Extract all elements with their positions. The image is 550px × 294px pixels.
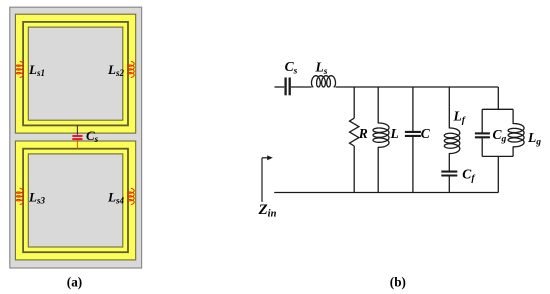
tank loop bottom side <box>482 155 513 157</box>
wire: R branch upper <box>353 87 355 118</box>
capacitor Cf <box>441 172 457 176</box>
svg-text:R: R <box>358 126 368 141</box>
wire: Lf to Cf <box>448 153 450 171</box>
svg-text:Lg: Lg <box>527 130 541 148</box>
wire: Cs to Ls <box>291 86 312 88</box>
svg-text:Ls: Ls <box>315 60 328 78</box>
capacitor Cg <box>475 133 490 137</box>
inductor Lg <box>508 124 524 147</box>
wire: top rail <box>336 86 499 88</box>
wire: bottom rail <box>274 192 498 194</box>
capacitor Cs (series) <box>286 78 290 96</box>
bottom square loop resonator <box>15 141 135 260</box>
tank left side lower <box>481 138 483 157</box>
svg-text:C: C <box>421 126 431 141</box>
wire: C branch lower <box>412 137 414 193</box>
inductor Ls1 (red coil, top-left) <box>16 61 23 77</box>
tank loop top side <box>482 108 513 110</box>
wire: L branch lower <box>377 147 379 193</box>
tank left side upper <box>481 109 483 133</box>
wire: Cf branch lower <box>448 176 450 192</box>
svg-text:Zin: Zin <box>258 202 277 220</box>
svg-text:(a): (a) <box>67 274 82 289</box>
svg-text:(b): (b) <box>390 274 406 289</box>
capacitor C <box>405 132 421 136</box>
wire: C branch upper <box>412 87 414 131</box>
wire: tank feed lower <box>497 156 499 192</box>
svg-text:L: L <box>390 126 399 141</box>
wire: R branch lower <box>353 146 355 193</box>
tank right side upper <box>512 109 514 124</box>
inductor Ls4 (red coil, bottom-right) <box>127 188 134 204</box>
Zin arrow <box>262 155 273 202</box>
inductor Lf <box>444 128 459 154</box>
substrate panel (a) <box>10 7 142 268</box>
wire: tank feed upper <box>497 87 499 109</box>
svg-text:Lf: Lf <box>453 109 466 127</box>
resistor R <box>350 118 359 146</box>
wire: Lf branch upper <box>448 87 450 128</box>
wire: input stub to Cs <box>275 86 285 88</box>
top square loop resonator <box>15 14 135 133</box>
svg-text:Cs: Cs <box>285 59 298 77</box>
inductor L <box>373 123 389 147</box>
inductor Ls (series) <box>312 76 336 87</box>
svg-text:Cg: Cg <box>493 127 507 145</box>
tank right side lower <box>512 146 514 156</box>
inductor Ls2 (red coil, top-right) <box>127 61 134 77</box>
capacitor Cs (red, between loops) <box>72 126 82 149</box>
svg-text:Cf: Cf <box>462 167 475 185</box>
inductor Ls3 (red coil, bottom-left) <box>16 188 23 204</box>
wire: L branch upper <box>377 87 379 123</box>
